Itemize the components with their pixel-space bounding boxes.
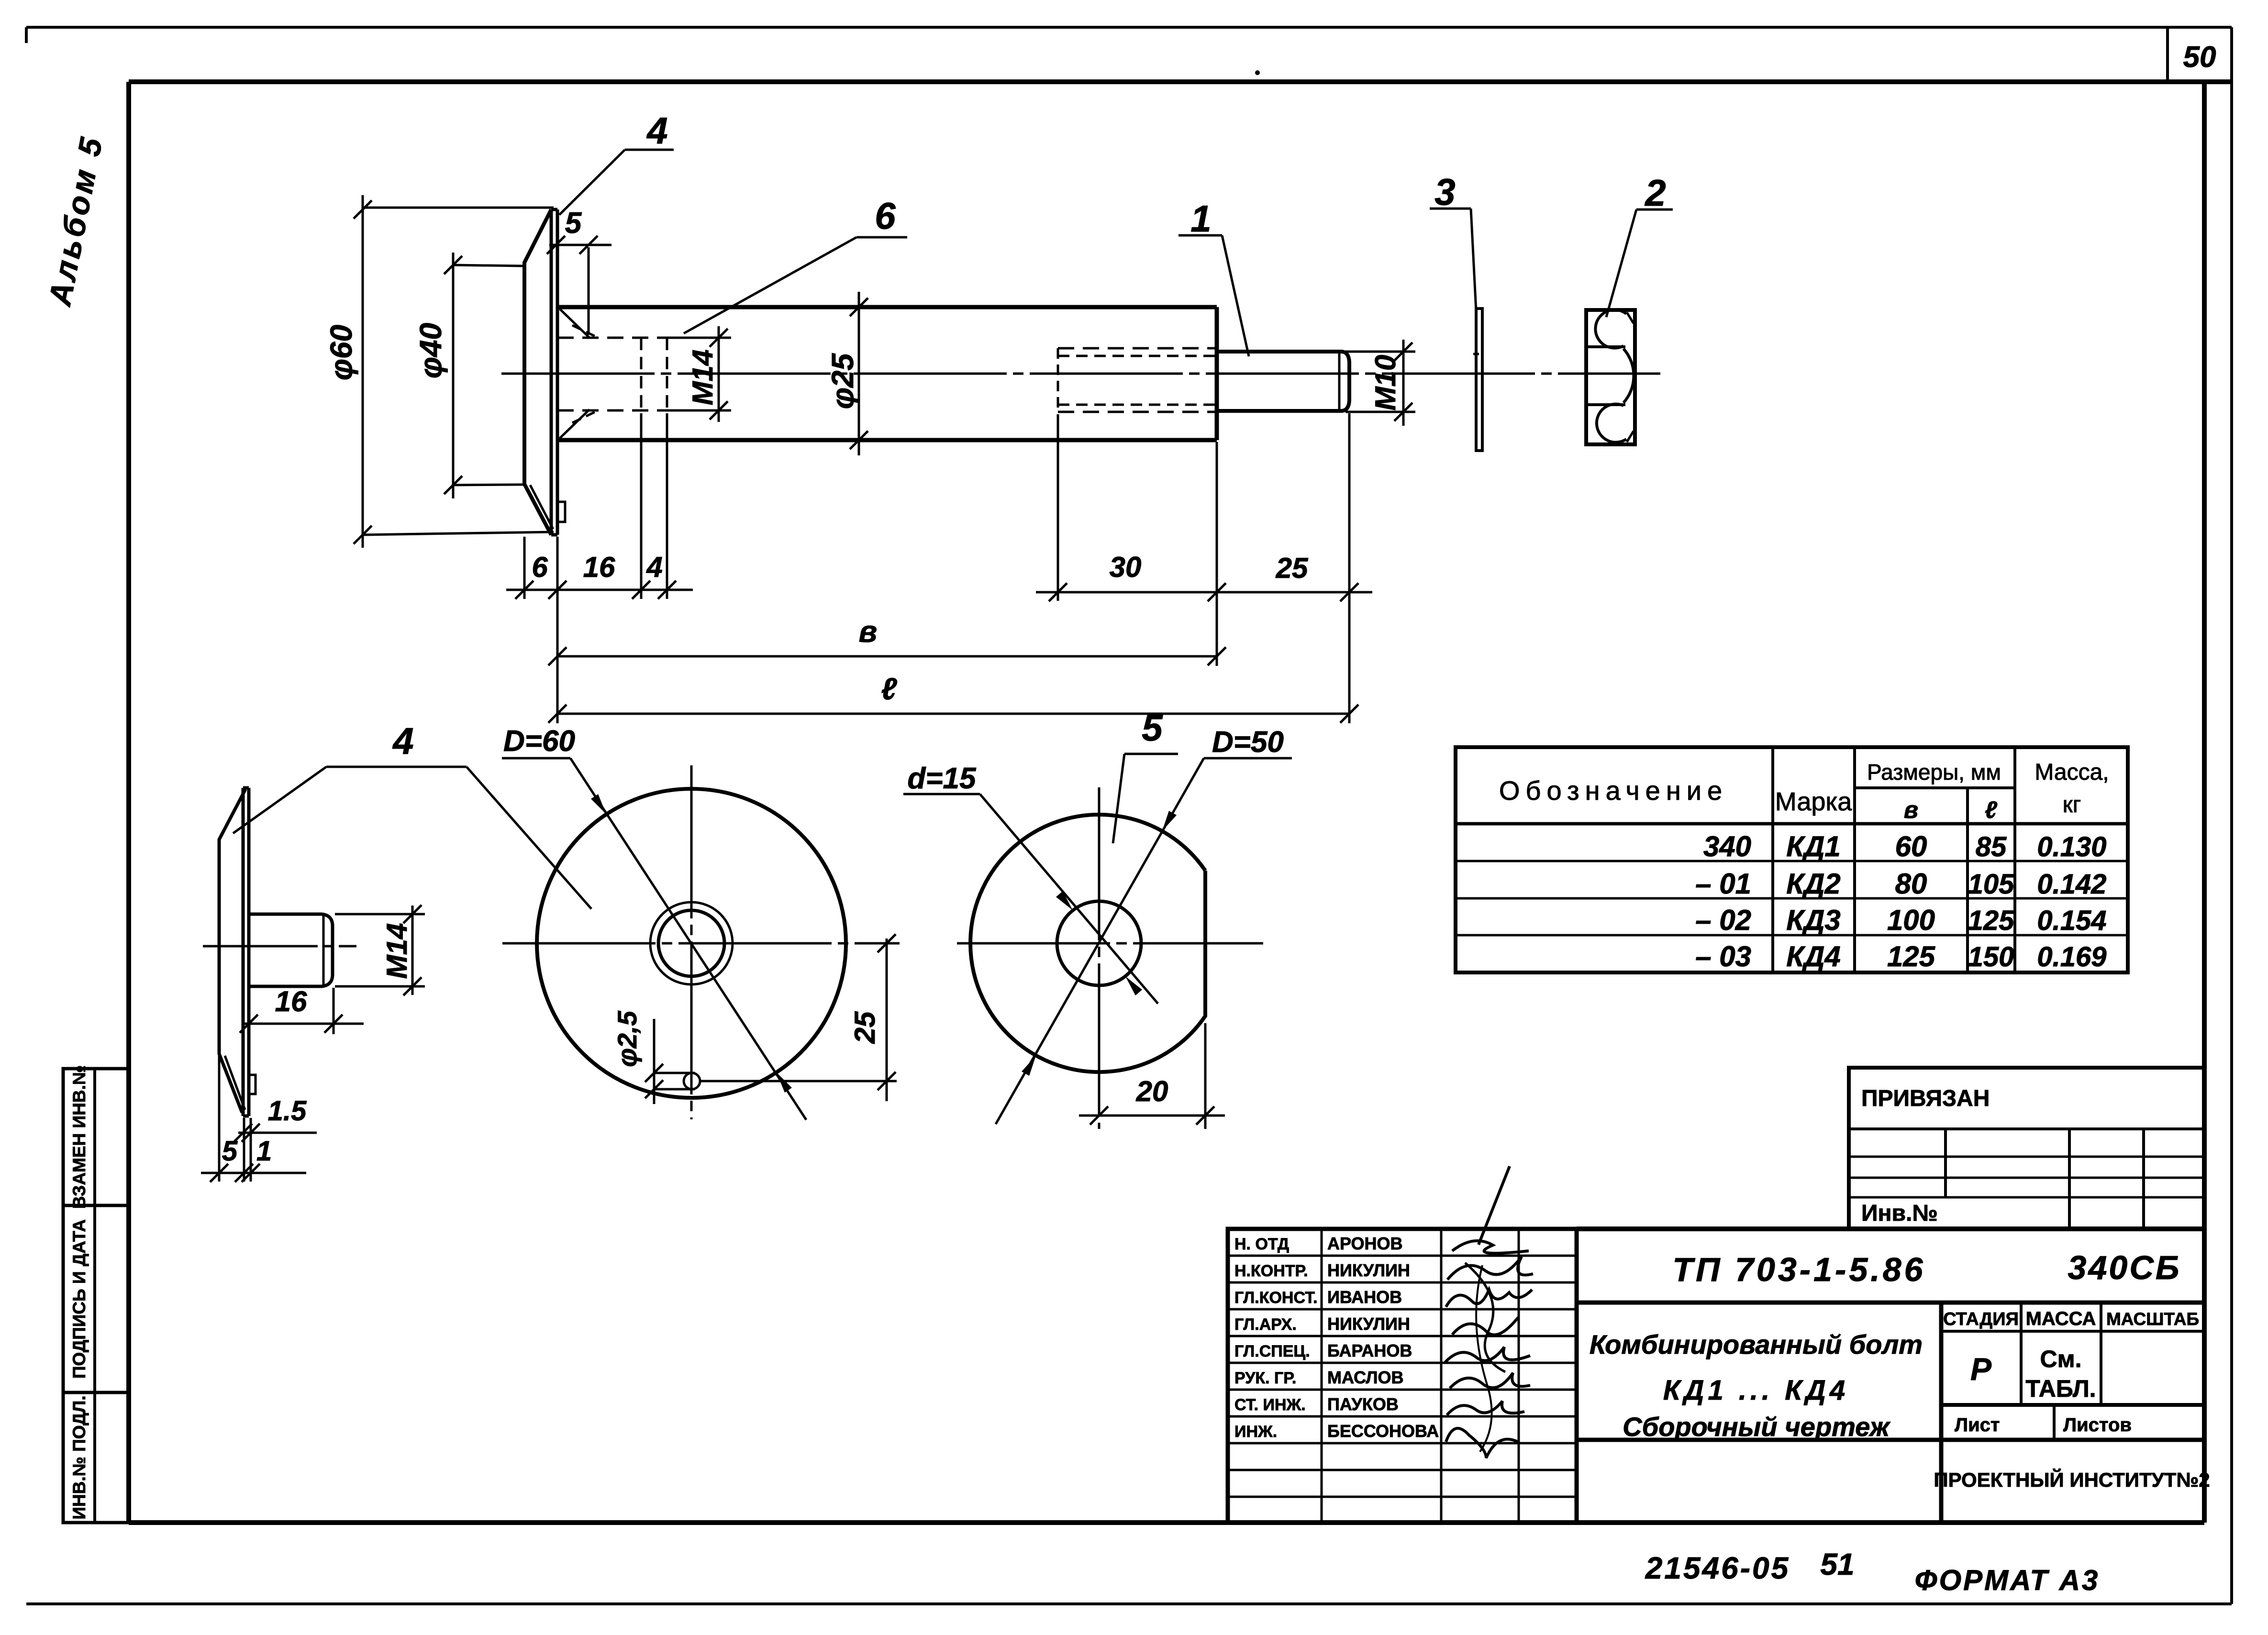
- svg-text:Масса,: Масса,: [2035, 760, 2109, 785]
- svg-text:Марка: Марка: [1775, 787, 1852, 816]
- svg-text:Обозначение: Обозначение: [1499, 775, 1728, 806]
- svg-text:ИВАНОВ: ИВАНОВ: [1327, 1287, 1402, 1307]
- svg-text:5: 5: [222, 1136, 238, 1167]
- svg-text:105: 105: [1968, 869, 2015, 900]
- svg-text:340СБ: 340СБ: [2068, 1249, 2181, 1286]
- svg-text:НИКУЛИН: НИКУЛИН: [1327, 1260, 1410, 1280]
- svg-text:1: 1: [1190, 198, 1211, 240]
- svg-text:1.5: 1.5: [268, 1095, 307, 1127]
- svg-text:ℓ: ℓ: [881, 672, 897, 706]
- svg-text:5: 5: [1142, 707, 1163, 749]
- svg-text:ПАУКОВ: ПАУКОВ: [1327, 1394, 1399, 1414]
- svg-text:МАССА: МАССА: [2026, 1308, 2096, 1329]
- svg-text:D=50: D=50: [1212, 726, 1284, 759]
- svg-text:М14: М14: [687, 350, 719, 406]
- svg-text:21546-05: 21546-05: [1645, 1551, 1790, 1585]
- svg-text:6: 6: [875, 195, 896, 237]
- svg-text:D=60: D=60: [503, 725, 575, 758]
- svg-text:ℓ: ℓ: [1985, 796, 1998, 823]
- svg-text:6: 6: [532, 551, 548, 583]
- svg-text:МАСЛОВ: МАСЛОВ: [1327, 1368, 1403, 1387]
- svg-text:КД1: КД1: [1786, 830, 1841, 862]
- svg-text:БАРАНОВ: БАРАНОВ: [1327, 1341, 1412, 1360]
- svg-text:Размеры, мм: Размеры, мм: [1867, 760, 2001, 784]
- svg-text:25: 25: [849, 1011, 881, 1044]
- svg-text:4: 4: [392, 720, 413, 762]
- svg-text:ВЗАМЕН ИНВ.№: ВЗАМЕН ИНВ.№: [69, 1065, 89, 1209]
- svg-text:СТАДИЯ: СТАДИЯ: [1943, 1309, 2019, 1329]
- svg-text:ИНВ.№ ПОДЛ.: ИНВ.№ ПОДЛ.: [69, 1395, 89, 1519]
- svg-text:ГЛ.СПЕЦ.: ГЛ.СПЕЦ.: [1234, 1342, 1310, 1360]
- svg-text:0.130: 0.130: [2037, 831, 2106, 862]
- svg-text:ПРИВЯЗАН: ПРИВЯЗАН: [1861, 1086, 1990, 1111]
- svg-text:16: 16: [583, 551, 615, 583]
- svg-text:25: 25: [1276, 552, 1309, 584]
- svg-text:Инв.№: Инв.№: [1861, 1201, 1938, 1226]
- svg-text:125: 125: [1887, 940, 1936, 972]
- svg-text:φ40: φ40: [413, 323, 448, 378]
- svg-text:ТП 703-1-5.86: ТП 703-1-5.86: [1672, 1251, 1925, 1288]
- svg-text:51: 51: [1820, 1547, 1854, 1581]
- svg-text:0.154: 0.154: [2037, 905, 2106, 936]
- svg-text:φ60: φ60: [324, 325, 358, 380]
- svg-text:кг: кг: [2063, 792, 2081, 817]
- svg-text:Комбинированный болт: Комбинированный болт: [1590, 1329, 1923, 1359]
- svg-text:КД3: КД3: [1786, 904, 1841, 936]
- svg-text:85: 85: [1976, 831, 2007, 862]
- svg-text:ФОРМАТ А3: ФОРМАТ А3: [1915, 1564, 2100, 1596]
- svg-text:КД4: КД4: [1786, 940, 1841, 972]
- svg-text:– 02: – 02: [1695, 904, 1751, 936]
- svg-text:1: 1: [256, 1136, 272, 1167]
- svg-text:150: 150: [1968, 941, 2014, 972]
- svg-text:4: 4: [646, 110, 667, 152]
- svg-text:20: 20: [1136, 1075, 1168, 1107]
- svg-text:МАСШТАБ: МАСШТАБ: [2106, 1309, 2199, 1329]
- svg-text:ГЛ.КОНСТ.: ГЛ.КОНСТ.: [1234, 1289, 1318, 1307]
- svg-text:ПРОЕКТНЫЙ ИНСТИТУТ№2: ПРОЕКТНЫЙ ИНСТИТУТ№2: [1934, 1468, 2210, 1491]
- svg-text:2: 2: [1644, 172, 1666, 214]
- svg-text:в: в: [1904, 796, 1918, 823]
- svg-text:М10: М10: [1369, 355, 1401, 411]
- svg-text:φ25: φ25: [825, 353, 860, 409]
- svg-text:80: 80: [1895, 868, 1927, 900]
- svg-text:– 01: – 01: [1695, 868, 1751, 900]
- svg-text:30: 30: [1110, 551, 1142, 583]
- svg-text:Листов: Листов: [2063, 1414, 2132, 1436]
- svg-text:СТ. ИНЖ.: СТ. ИНЖ.: [1234, 1396, 1306, 1414]
- svg-text:340: 340: [1703, 830, 1751, 862]
- svg-text:50: 50: [2183, 41, 2216, 74]
- svg-text:КД2: КД2: [1786, 868, 1841, 900]
- svg-text:АРОНОВ: АРОНОВ: [1327, 1234, 1403, 1253]
- svg-text:– 03: – 03: [1695, 940, 1751, 972]
- svg-text:БЕССОНОВА: БЕССОНОВА: [1327, 1421, 1439, 1441]
- svg-text:Сборочный чертеж: Сборочный чертеж: [1623, 1412, 1890, 1442]
- svg-text:φ2,5: φ2,5: [612, 1011, 642, 1067]
- svg-text:0.169: 0.169: [2037, 941, 2106, 972]
- svg-text:См.: См.: [2040, 1346, 2082, 1372]
- svg-text:НИКУЛИН: НИКУЛИН: [1327, 1314, 1410, 1334]
- svg-text:125: 125: [1968, 905, 2015, 936]
- svg-text:Р: Р: [1970, 1351, 1992, 1387]
- svg-text:ПОДПИСЬ И ДАТА: ПОДПИСЬ И ДАТА: [69, 1219, 89, 1379]
- svg-text:100: 100: [1887, 904, 1935, 936]
- svg-text:3: 3: [1434, 171, 1455, 213]
- svg-text:М14: М14: [381, 923, 413, 979]
- svg-text:Н.КОНТР.: Н.КОНТР.: [1234, 1262, 1308, 1280]
- svg-text:в: в: [859, 614, 878, 649]
- svg-text:КД1 ... КД4: КД1 ... КД4: [1663, 1375, 1849, 1406]
- svg-text:ТАБЛ.: ТАБЛ.: [2025, 1375, 2096, 1402]
- svg-text:d=15: d=15: [907, 762, 977, 795]
- svg-text:РУК. ГР.: РУК. ГР.: [1234, 1369, 1296, 1387]
- svg-text:Н. ОТД: Н. ОТД: [1234, 1235, 1289, 1253]
- svg-text:4: 4: [646, 551, 662, 583]
- svg-text:60: 60: [1895, 830, 1927, 862]
- svg-text:ГЛ.АРХ.: ГЛ.АРХ.: [1234, 1315, 1297, 1334]
- svg-text:16: 16: [275, 985, 307, 1017]
- svg-text:Альбом 5: Альбом 5: [42, 132, 110, 309]
- svg-text:0.142: 0.142: [2037, 869, 2106, 900]
- svg-text:ИНЖ.: ИНЖ.: [1234, 1423, 1277, 1441]
- svg-text:5: 5: [565, 207, 582, 240]
- svg-text:Лист: Лист: [1955, 1414, 2000, 1436]
